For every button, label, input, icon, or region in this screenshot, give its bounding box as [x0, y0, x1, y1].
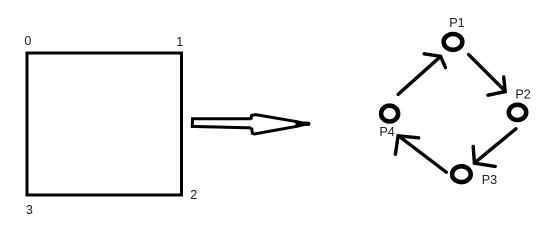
arrow P3 to P4 head — [395, 136, 418, 154]
arrow P4 to P1 shaft — [398, 57, 440, 94]
arrow head — [251, 115, 304, 124]
node P4 ellipse — [381, 106, 398, 122]
node P3 ellipse — [452, 166, 471, 182]
block arrow (maps-to) — [192, 115, 308, 134]
svg-text:P3: P3 — [482, 173, 497, 187]
svg-text:1: 1 — [176, 35, 183, 49]
node P2 ellipse — [509, 105, 526, 120]
arrow P3 to P4 shaft — [400, 137, 446, 172]
node P1 ellipse — [444, 34, 463, 50]
svg-text:P4: P4 — [379, 125, 394, 139]
square polygon 0-1-2-3 — [27, 53, 182, 195]
svg-text:0: 0 — [24, 34, 31, 48]
arrow shaft — [192, 119, 251, 128]
svg-text:P1: P1 — [449, 16, 464, 30]
arrow P2 to P3 head — [473, 146, 495, 166]
arrow P1 to P2 shaft — [469, 55, 505, 91]
svg-text:3: 3 — [26, 203, 33, 217]
arrow P4 to P1 head — [424, 54, 445, 68]
svg-text:2: 2 — [190, 188, 197, 202]
svg-text:P2: P2 — [515, 87, 530, 101]
arrow P2 to P3 shaft — [476, 129, 516, 162]
arrow P1 to P2 head — [488, 77, 505, 95]
